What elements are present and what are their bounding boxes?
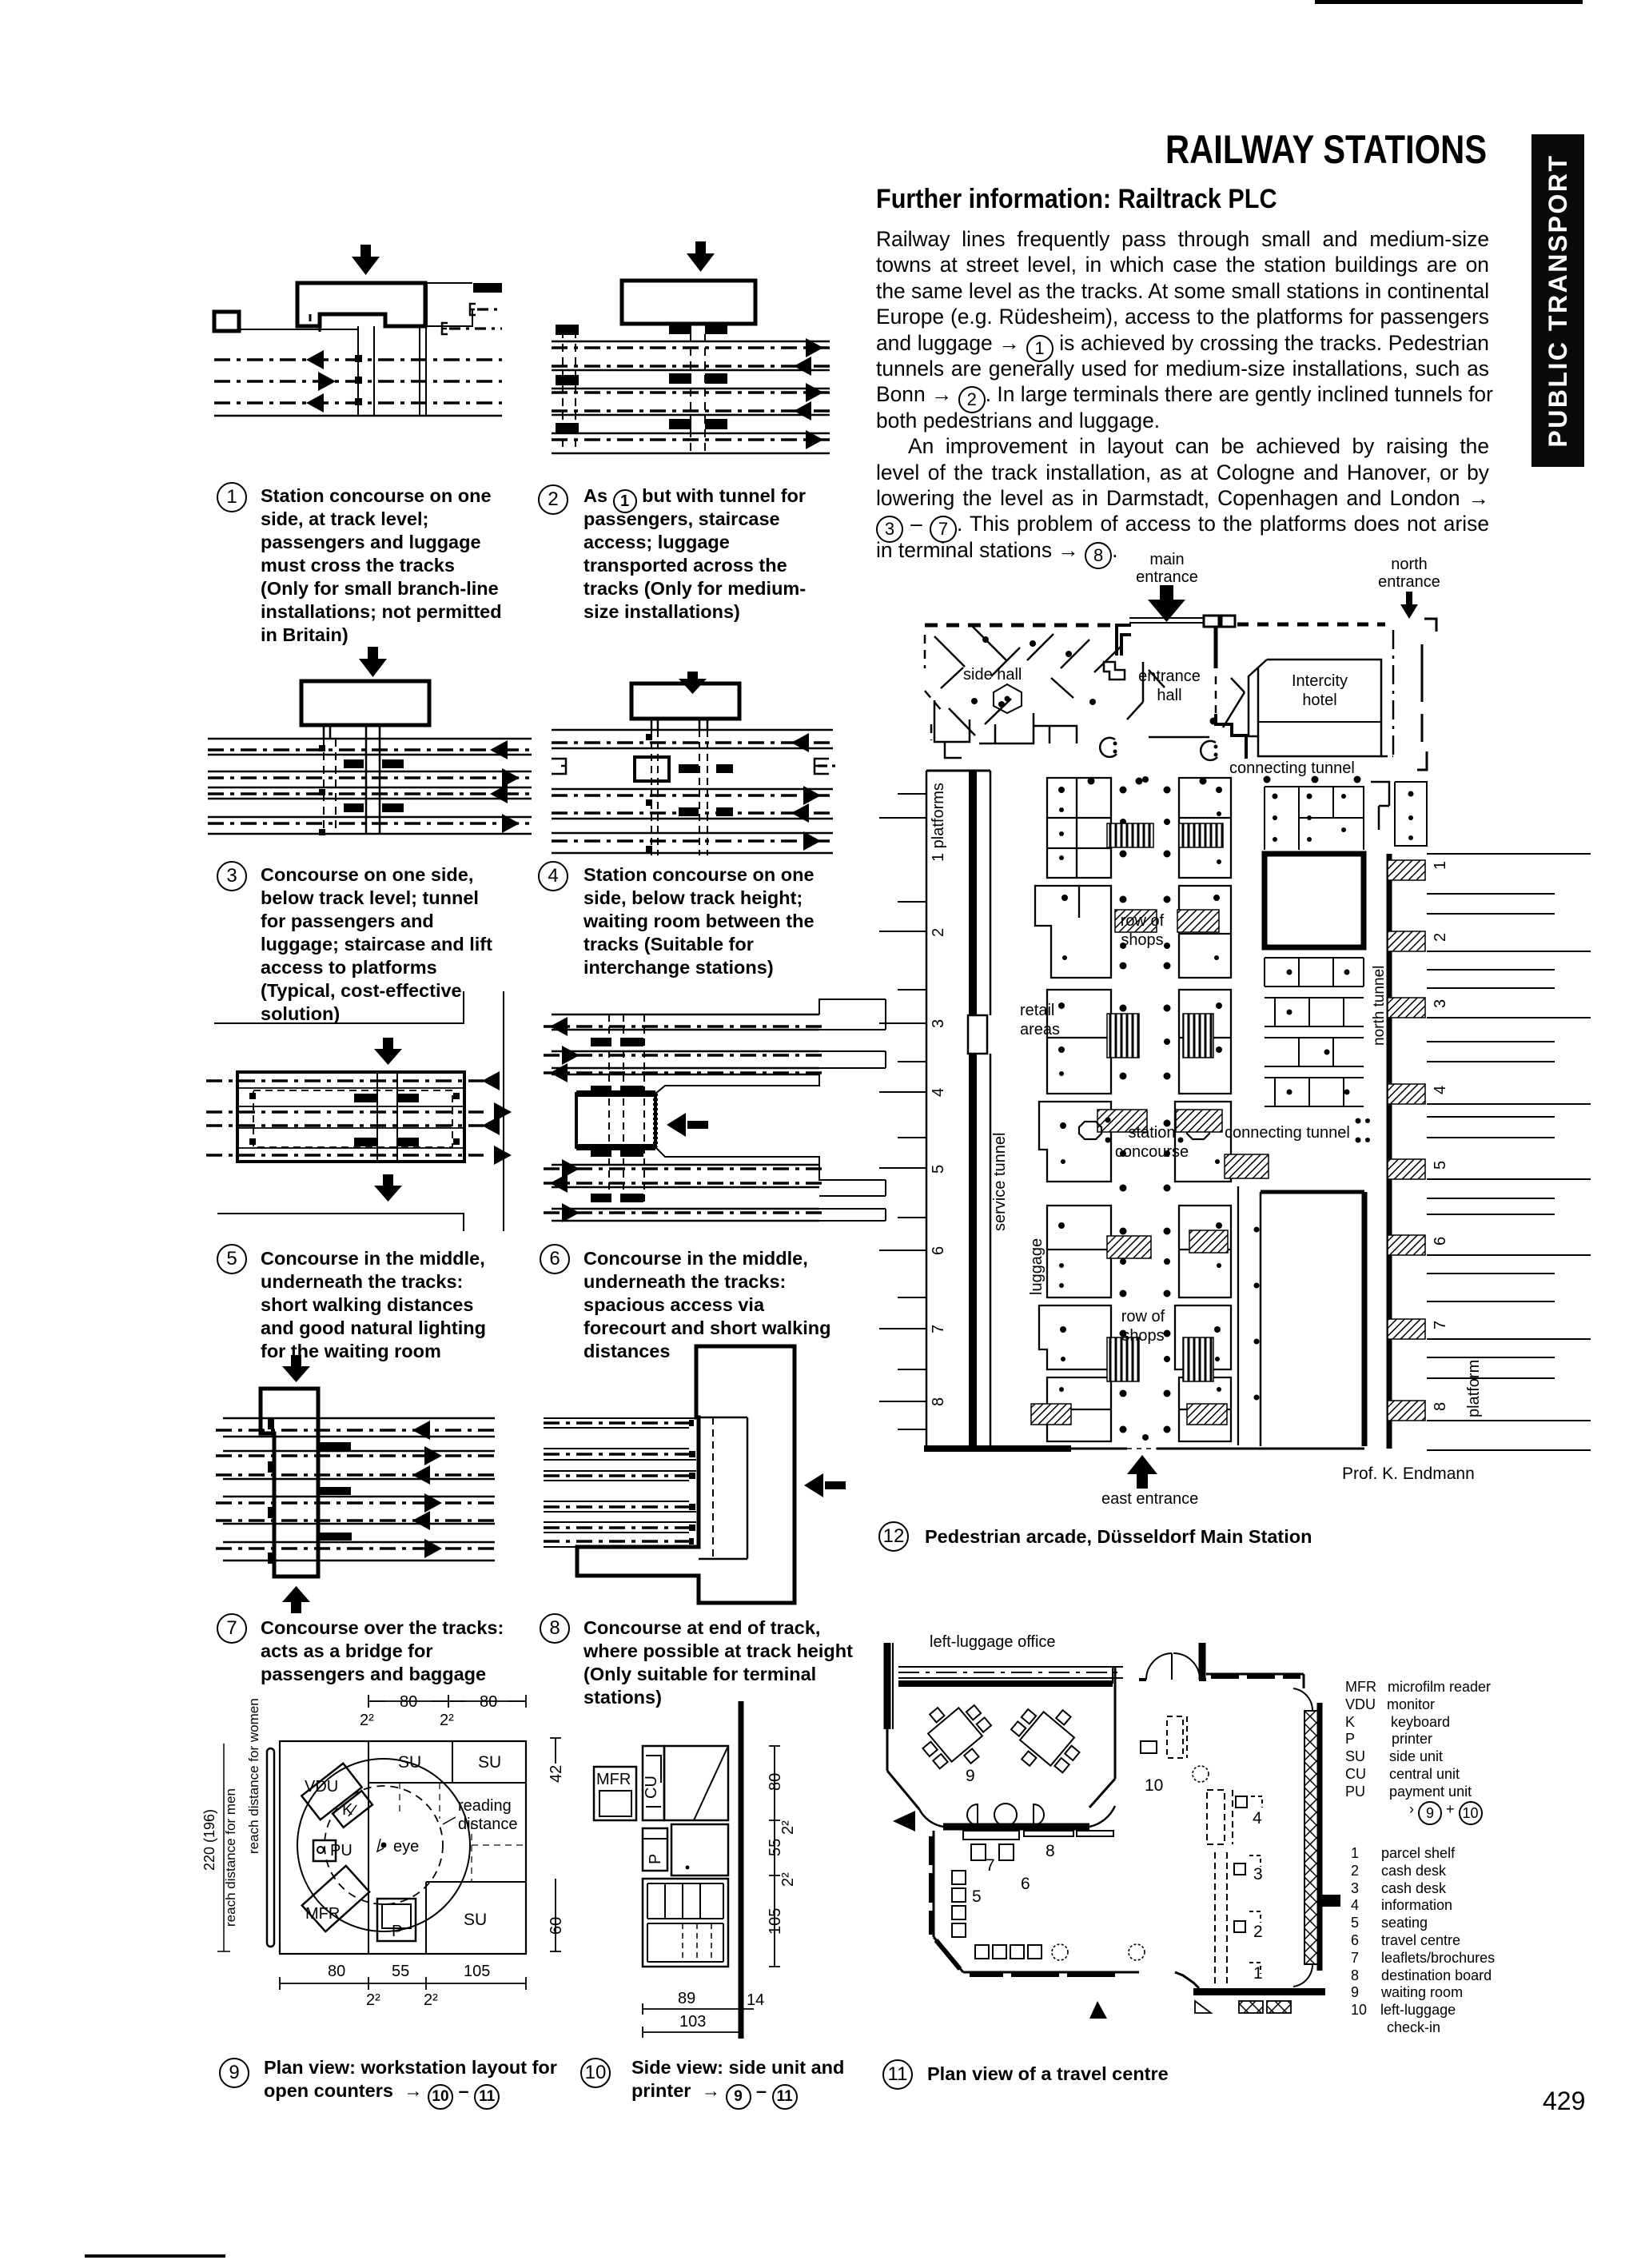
svg-text:4: 4 [930,1088,947,1097]
svg-text:14: 14 [747,1991,764,2009]
arrow down [679,672,707,694]
platform numbers left [930,783,947,1406]
diagram 6: concourse under tracks, forecourt [544,991,895,1231]
left stair dashed shaft [563,330,576,453]
Prof. K. Endmann credit [1342,1465,1475,1484]
bottom dimension [280,1977,526,1990]
seating 5 [952,1871,966,1937]
svg-text:7: 7 [1432,1321,1449,1329]
right side outlines [819,1165,886,1221]
svg-text:entrance: entrance [1138,668,1201,685]
connecting tunnel dots [1356,1118,1371,1143]
rail group boundaries [552,341,830,453]
svg-text:PU: PU [330,1842,352,1859]
side hall lower rooms [934,700,1034,758]
corner squares [249,1093,460,1145]
svg-text:platform: platform [1465,1360,1483,1417]
svg-text:6: 6 [930,1246,947,1255]
door arcs right [1293,1688,1312,1711]
platform blocks [354,1094,419,1146]
top dashed boundary right part [1237,623,1385,627]
destination board 8 [1024,1831,1073,1836]
diagram 7: concourse over the tracks [208,1343,544,1623]
bracket right vertical [503,991,504,1231]
caption 4 [538,861,568,891]
reach circles [297,1759,470,1931]
svg-text:80: 80 [767,1773,784,1791]
right stairs [1176,823,1269,1425]
x-hatch boxes bottom [1239,2001,1291,2013]
train symbol E lower [442,323,448,334]
top dashed boundary left part [925,624,1115,628]
platform blocks [344,759,404,812]
svg-text:connecting tunnel: connecting tunnel [1229,759,1355,777]
bracket top [214,991,464,1023]
rail boundaries [208,739,532,834]
leaflets 7 [963,1831,1019,1840]
tracks dash-dot [552,346,833,349]
svg-text:2: 2 [1253,1923,1263,1941]
left stair blocks [556,325,579,433]
svg-text:3: 3 [930,1019,947,1028]
MFR unit [594,1767,636,1820]
waiting room tables cluster A [909,1688,1002,1780]
north entrance corridor walls [1424,619,1436,632]
caption 9 [219,2058,249,2088]
diagram 2: tunnel under tracks [552,236,879,464]
travel centre left wall w/ windows [933,1831,935,1937]
inner partitions [368,1741,526,1954]
svg-text:hotel: hotel [1302,692,1336,709]
caption 7 [217,1613,247,1644]
arrows [482,1071,512,1165]
dashed shafts [651,730,707,855]
small squares [646,734,652,852]
arrow down [282,1355,310,1382]
svg-text:60: 60 [548,1917,565,1935]
rails [223,1418,495,1560]
svg-text:retail: retail [1020,1002,1054,1019]
CU unit [643,1746,664,1820]
north tunnel upper right entry [1371,782,1389,830]
big box 2 [1261,1190,1364,1194]
outer platform edge line [926,771,928,1449]
right platform numbers [1432,861,1449,1411]
svg-text:55: 55 [392,1963,409,1980]
north tunnel entry rooms [1395,782,1427,846]
svg-text:4: 4 [1253,1809,1262,1828]
svg-text:eye: eye [393,1838,419,1855]
north tunnel wall [1387,854,1392,1449]
buffer stops [689,1420,695,1545]
platform label right [1465,1360,1483,1417]
south entrance arrow [1089,2001,1107,2019]
svg-text:row of: row of [1121,1308,1165,1325]
revolving doors [1100,738,1217,760]
bottom seats row [975,1945,1042,1959]
black blocks above building [591,1038,643,1202]
svg-text:station: station [1129,1124,1176,1142]
bridge building [261,1389,318,1576]
right platform lines [1427,854,1591,1450]
svg-text:5: 5 [930,1165,947,1174]
svg-text:55: 55 [767,1839,784,1856]
svg-text:shops: shops [1121,931,1163,949]
intercity hotel [1249,660,1381,756]
dashed guide lines [368,1783,526,1882]
svg-text:105: 105 [464,1963,490,1980]
train symbol E upper [470,304,476,315]
svg-text:Intercity: Intercity [1292,672,1348,690]
svg-text:P: P [392,1923,402,1940]
waiting room outer walls [884,1643,891,1729]
svg-text:service tunnel: service tunnel [991,1133,1009,1231]
waiting room between tracks [635,757,669,781]
top right walls [1199,1643,1206,1680]
small squares on path [355,355,362,405]
main entrance label [1136,551,1198,586]
ground line [214,415,502,417]
VDU tilted [301,1764,361,1820]
svg-text:areas: areas [1020,1021,1060,1038]
svg-text:10: 10 [1145,1776,1163,1795]
svg-text:1: 1 [1253,1964,1263,1983]
svg-text:2²: 2² [360,1712,374,1729]
top dimension line [368,1695,526,1708]
access shafts from building [324,725,380,739]
svg-text:east entrance: east entrance [1101,1490,1198,1508]
svg-text:SU: SU [478,1753,501,1772]
side hall diagonals [934,627,1121,735]
mid platform blocks [669,373,727,429]
building outline [297,283,425,326]
north entrance arrow [1400,592,1418,619]
svg-text:2: 2 [930,928,947,937]
entrance canopy [1129,618,1204,623]
angled bottom-left [934,1937,963,1972]
top corridor columns dots [1088,776,1361,785]
svg-text:2²: 2² [779,1872,797,1887]
building outline [237,1072,464,1162]
svg-text:5: 5 [1432,1161,1449,1170]
lower rail bundle [552,1165,819,1221]
upper rail bundle [552,1014,819,1074]
left rotated labels [201,1698,261,1927]
bottom boundary [924,1445,1071,1452]
service tunnel wall [990,771,992,1445]
caption 6 [540,1244,570,1274]
diagram 9: workstation plan [200,1687,584,2015]
arrow into terminal [804,1473,846,1497]
printer P [643,1828,667,1871]
train symbols left/right [552,759,566,774]
svg-text:3: 3 [1432,999,1449,1008]
platform tick lines [879,794,926,1429]
tracks [552,741,836,743]
concourse inner line [699,1417,747,1559]
svg-text:103: 103 [679,2013,706,2031]
svg-text:1: 1 [1432,861,1449,870]
svg-text:89: 89 [678,1990,695,2007]
tracks through building [206,1079,484,1082]
right platform stubs (hatched) [1388,860,1425,1421]
counters 4/3/2/1 [1207,1790,1262,1983]
svg-text:105: 105 [767,1908,784,1935]
connecting tunnel label [1229,759,1355,777]
page number [1543,2087,1585,2116]
svg-text:left-luggage office: left-luggage office [930,1633,1056,1651]
right hatched band [1304,1711,1320,1964]
centre tunnel dashed shaft [691,334,705,453]
arrows [791,733,821,851]
reading distance label + leader [458,1797,518,1833]
svg-text:42: 42 [548,1765,565,1783]
left side rail [267,1748,274,1947]
MFR tilted [302,1866,369,1931]
stair shaft verticals [377,1072,397,1162]
page title [1165,126,1487,173]
big box 1 (thick) [1265,854,1364,947]
shafts [651,718,707,730]
heavy wall [969,771,977,1015]
svg-text:north: north [1391,556,1428,573]
svg-text:2: 2 [1432,933,1449,942]
svg-text:2²: 2² [366,1991,380,2009]
svg-text:shops: shops [1121,1327,1164,1345]
arrows [490,740,520,833]
inner platform lines [237,1088,464,1148]
svg-text:luggage: luggage [1028,1238,1046,1295]
svg-text:reach distance for men: reach distance for men [223,1788,238,1927]
svg-text:row of: row of [1121,912,1165,930]
svg-text:6: 6 [1021,1875,1030,1893]
caption 2 [538,484,568,515]
east entrance arrow [1127,1455,1157,1489]
svg-text:1 platforms: 1 platforms [930,783,947,862]
svg-text:9: 9 [966,1767,975,1785]
waiting room tables cluster B [1001,1692,1093,1784]
svg-text:entrance: entrance [1136,568,1198,586]
arrow down [687,241,715,272]
dashed queue line [712,1417,714,1559]
entrance door symbol [1104,662,1125,680]
small outbuilding [214,312,239,331]
svg-text:8: 8 [1046,1842,1055,1860]
svg-text:reach distance for women: reach distance for women [246,1698,261,1854]
left stairs (hatched) [1031,823,1157,1425]
arrow into building [667,1113,708,1137]
vestibule hook [1117,625,1131,656]
arrow up [282,1586,310,1613]
svg-text:220 (196): 220 (196) [201,1809,217,1871]
svg-text:CU: CU [643,1776,660,1799]
arrow down [359,647,387,677]
svg-text:hall: hall [1157,687,1181,704]
nubs left [268,1418,274,1564]
svg-text:reading: reading [458,1797,512,1815]
side unit with diagonal [664,1746,728,1820]
bracket bottom [217,1214,464,1231]
hatched right edge of building [653,1094,658,1147]
svg-text:MFR: MFR [596,1771,631,1788]
caption 1 [217,482,247,512]
thick wall below canopy [1214,627,1218,668]
diagram 3: concourse below track level [208,640,560,843]
svg-text:80: 80 [328,1963,345,1980]
black roof block [473,283,502,293]
diagram 8: terminal concourse [544,1327,863,1615]
eye [381,1838,420,1855]
section heading [876,184,1277,215]
diagram 10: side view of side unit and printer [576,1687,799,2039]
station building [301,681,429,725]
svg-text:P: P [647,1854,664,1864]
keyboard K tilted [333,1791,372,1828]
svg-text:north tunnel: north tunnel [1371,966,1388,1046]
concourse door circles [1079,1122,1101,1139]
caption 8 [540,1613,570,1644]
station building [622,281,755,324]
svg-text:main: main [1149,551,1184,568]
platform bars right of bridge [318,1442,352,1541]
hotel to boundary dashes [1381,755,1393,758]
forecourt outline [655,1074,819,1165]
svg-text:2²: 2² [424,1991,438,2009]
left dim line [217,1744,230,1951]
workstation outer box [280,1741,526,1954]
track 3 [214,401,502,404]
svg-text:7: 7 [930,1325,947,1333]
rotated service tunnel / luggage [991,1133,1046,1295]
round tables [967,1804,1044,1826]
right dims 42/60 [550,1738,561,1951]
left-luggage office label [930,1633,1056,1651]
check-in counters 10 [1141,1716,1187,1758]
diagram 11: travel centre plan [875,1627,1347,2027]
arrow down bottom [374,1174,402,1202]
arrows left side [550,1017,580,1222]
svg-text:K: K [342,1801,353,1819]
svg-text:5: 5 [972,1887,982,1906]
svg-text:80: 80 [480,1693,497,1711]
right shops dots [1164,787,1260,1433]
svg-text:8: 8 [930,1397,947,1406]
caption 5 [217,1244,247,1274]
caption 10 [580,2058,611,2088]
caption 3 [217,861,247,891]
crossing path verticals [358,326,426,416]
svg-text:MFR: MFR [305,1905,340,1923]
svg-text:entrance: entrance [1378,573,1440,591]
track 1 [214,358,502,361]
SU labels [398,1753,501,1929]
bottom right wall [1193,1988,1325,1995]
svg-text:2²: 2² [779,1820,797,1835]
bottom dims [643,2003,754,2015]
svg-text:VDU: VDU [305,1778,338,1796]
svg-text:SU: SU [464,1911,487,1929]
diagram 12: Duesseldorf main station pedestrian arcade plan [867,542,1637,1541]
track arrows [794,338,823,449]
forecourt line [239,329,358,416]
north entrance label [1378,556,1440,591]
track arrows [306,350,336,413]
left shops column dots [1058,787,1127,1433]
platform stubs below building [669,324,727,334]
building [576,1094,655,1147]
svg-text:concourse: concourse [1115,1143,1189,1161]
body paragraph [876,226,1489,563]
P printer box [377,1899,416,1941]
bottom wall with windows [963,1971,1123,1974]
upper right track stubs [819,999,886,1068]
rooms cluster below box1 [1265,958,1364,1106]
terminal building outline [577,1346,795,1603]
svg-text:side hall: side hall [963,666,1022,684]
PUBLIC TRANSPORT side tab [1531,134,1584,467]
drawer unit [643,1879,728,1967]
entrance hall walls [1127,662,1245,737]
arrow down [352,245,380,275]
building thin extension [425,283,472,326]
svg-text:80: 80 [400,1693,417,1711]
tracks [208,748,536,751]
svg-text:8: 8 [1432,1402,1449,1411]
PU box [313,1840,336,1861]
inner dashed concourse [253,1090,452,1147]
rooms above box1 [1265,787,1364,850]
small squares [319,745,325,835]
svg-text:2²: 2² [440,1712,454,1729]
svg-text:6: 6 [1432,1237,1449,1246]
legend for 11 [1345,1679,1491,1820]
diagram 5: concourse under tracks (middle) [200,991,536,1231]
stair dashed shafts [609,1014,644,1203]
station building [631,684,739,719]
svg-text:7: 7 [986,1856,995,1875]
tracks entering [544,1418,696,1547]
svg-text:4: 4 [1432,1086,1449,1094]
main entrance arrow [1148,585,1185,622]
top rule [1315,0,1583,4]
plants [1052,1766,1209,1960]
track 2 [214,380,502,382]
arrows on tracks [412,1421,442,1558]
caption 12 [878,1521,909,1552]
counter wall [739,1701,744,2039]
right dimension line [769,1746,780,1967]
caption 11 [882,2059,913,2090]
diagram 1: station concourse at track level [200,233,560,425]
diagram 4: waiting room between tracks [552,672,911,863]
rail boundaries [552,730,833,853]
tunnel dashed shaft [324,739,336,834]
svg-text:distance: distance [458,1816,518,1833]
west entrance arrow [893,1811,915,1832]
bottom wall of waiting room with side arcs [943,1824,1089,1831]
bottom-left rule [85,2254,225,2258]
svg-text:connecting tunnel: connecting tunnel [1225,1124,1350,1142]
platform blocks [679,764,733,816]
arrow down top [374,1038,402,1065]
svg-text:3: 3 [1253,1865,1263,1883]
